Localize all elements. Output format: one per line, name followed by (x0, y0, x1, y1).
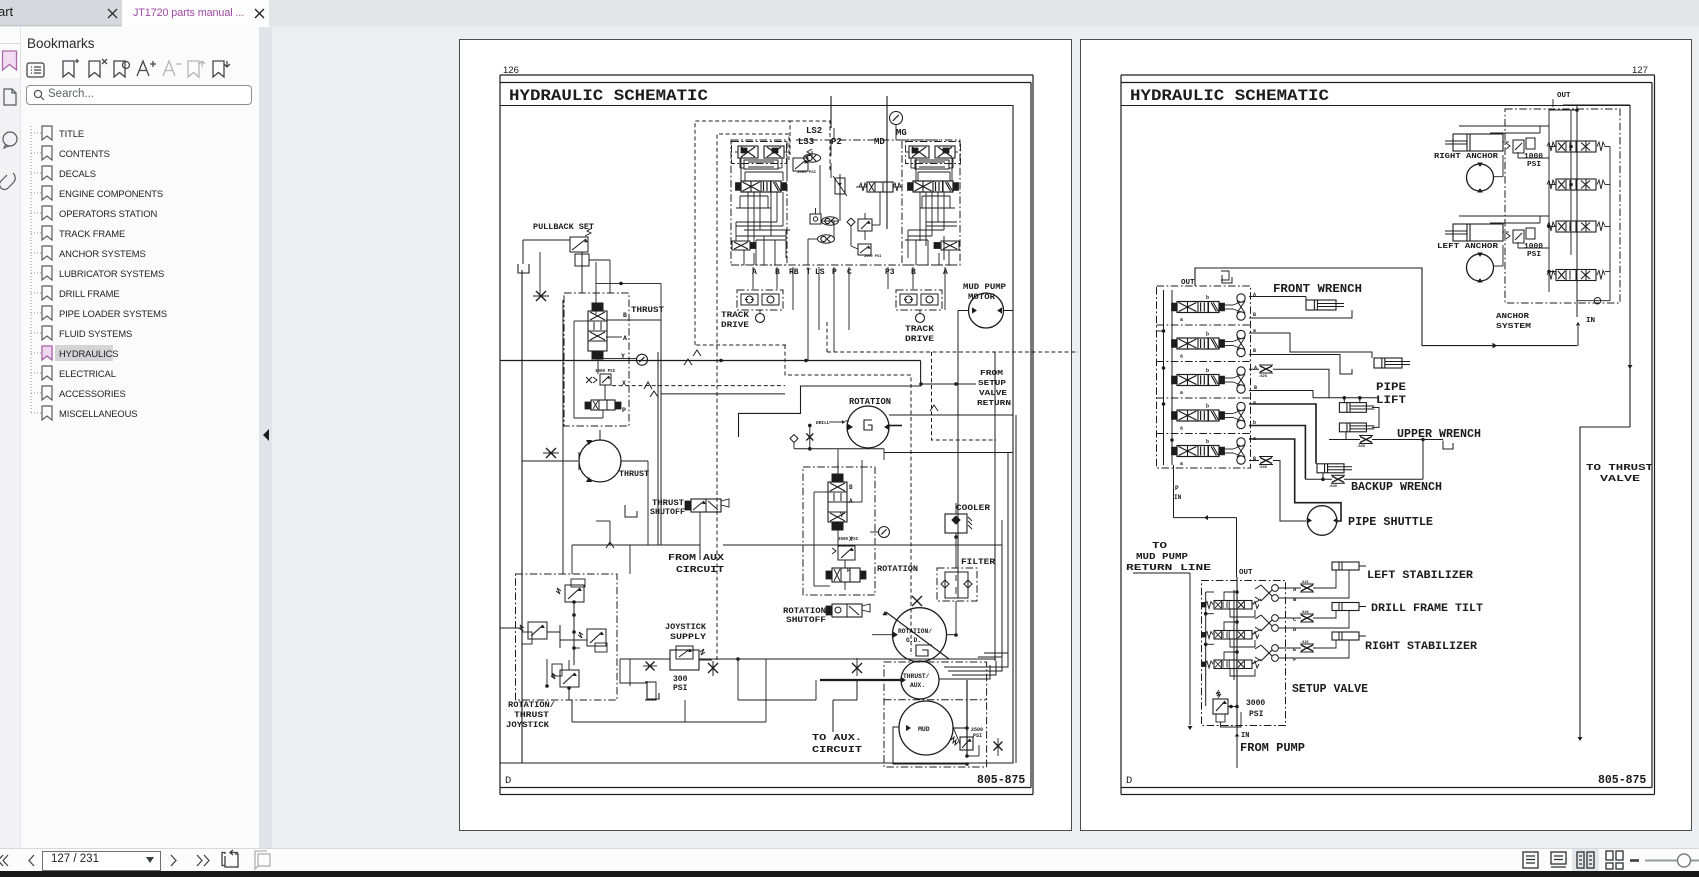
section4 heavy wire B (1249, 426, 1305, 480)
svg-text:SHUTOFF: SHUTOFF (786, 616, 826, 625)
pullback tank bracket (518, 264, 529, 273)
section3 wires (1249, 369, 1329, 398)
joystick supply X left (643, 662, 657, 671)
svg-text:TRACK: TRACK (721, 311, 749, 320)
rotation motor circle (847, 406, 890, 448)
svg-text:ANCHOR: ANCHOR (1496, 313, 1530, 321)
label 3000 PSI setup (1246, 699, 1265, 719)
anchor internal wires (1459, 110, 1610, 301)
label THRUST (631, 305, 664, 315)
joystick external wires (572, 521, 648, 574)
pilot line LS3-P2-MD dash-dot (796, 139, 940, 141)
svg-text:FROM PUMP: FROM PUMP (1240, 742, 1305, 755)
svg-text:CIRCUIT: CIRCUIT (676, 564, 724, 575)
svg-text:b: b (1206, 404, 1209, 410)
svg-text:300: 300 (673, 675, 688, 684)
svg-text:CIRCUIT: CIRCUIT (812, 744, 862, 755)
port labels row (752, 268, 948, 277)
label LEFT ANCHOR (1437, 243, 1499, 251)
page 1 title underline / drawing frame (500, 106, 1013, 764)
svg-text:MUD PUMP: MUD PUMP (1136, 551, 1188, 562)
setup orifice C (1300, 611, 1314, 622)
flow control mid (833, 174, 847, 198)
diamond check node (790, 424, 813, 451)
page 2 sheet letter D (1126, 775, 1132, 787)
joystick valve top (556, 579, 585, 602)
upper wrench feed line (1313, 396, 1379, 403)
anchor out-in vertical (1575, 106, 1579, 318)
upper wrench step connector (1372, 408, 1379, 428)
svg-text:805-875: 805-875 (977, 774, 1025, 787)
label LS2 (806, 126, 822, 136)
svg-text:DRIVE: DRIVE (905, 335, 934, 344)
svg-text:VALVE: VALVE (979, 390, 1008, 398)
svg-text:B: B (1253, 312, 1256, 318)
mid right valve (859, 182, 901, 192)
upper wrench cylinder 2 (1339, 423, 1374, 432)
svg-text:126: 126 (503, 65, 519, 76)
svg-text:Y: Y (840, 512, 844, 519)
page 2 drawing number (1598, 774, 1646, 787)
right anchor cylinder (1445, 134, 1503, 151)
backup wrench cylinder (1317, 464, 1352, 473)
thrust control box (564, 293, 629, 426)
right stab wires (1279, 640, 1350, 658)
from setup valve return label (977, 370, 1011, 408)
joystick supply wires (545, 657, 996, 688)
main pressure rail horizontal (500, 359, 921, 363)
svg-text:B: B (1253, 456, 1256, 462)
svg-text:T: T (806, 268, 811, 277)
anchor valve 2 (1547, 179, 1605, 190)
svg-text:3000: 3000 (1246, 699, 1265, 708)
label TRACK DRIVE left (721, 311, 749, 330)
pipe lift cylinder (1374, 358, 1410, 368)
setup port labels (1293, 586, 1297, 663)
joystick supply tank (645, 681, 659, 700)
svg-text:LEFT ANCHOR: LEFT ANCHOR (1437, 243, 1499, 251)
svg-text:THRUST/: THRUST/ (903, 673, 930, 680)
svg-text:THRUST: THRUST (652, 499, 684, 508)
svg-text:AUX.: AUX. (910, 682, 925, 689)
svg-text:.040: .040 (1300, 611, 1309, 615)
svg-text:VALVE: VALVE (1600, 474, 1641, 484)
svg-text:D: D (505, 775, 511, 787)
svg-text:B: B (1253, 348, 1256, 354)
svg-text:D: D (1126, 775, 1132, 787)
joystick supply label (665, 622, 707, 642)
label IN setup (1241, 732, 1249, 740)
to thrust valve line (1578, 365, 1633, 741)
right bundle horizontal (889, 405, 1013, 415)
track drive right assembly (896, 290, 942, 310)
svg-text:b: b (1206, 295, 1209, 301)
label TO MUD PUMP RETURN LINE (1126, 540, 1211, 573)
wires bank internals right (905, 158, 957, 265)
label ROTATION right (877, 564, 918, 574)
setup valve spool 2 (1202, 631, 1259, 640)
thrust shutoff tank (625, 505, 637, 517)
svg-text:SYSTEM: SYSTEM (1496, 323, 1532, 331)
anchor bottom check (1577, 298, 1610, 304)
left bank pilot valves (735, 146, 787, 169)
label 1000 psi 2 (1524, 243, 1544, 259)
joystick supply X right (708, 661, 718, 676)
svg-text:OUT: OUT (1557, 92, 1571, 100)
tank top stub (1221, 271, 1232, 283)
joystick label (506, 701, 555, 730)
svg-text:.046: .046 (1258, 466, 1268, 470)
mud pump motor wires (958, 311, 1013, 599)
check valve LS (804, 154, 821, 162)
mud pump return wire (1133, 573, 1192, 730)
section5 wire B (1249, 461, 1306, 522)
svg-text:A: A (849, 498, 853, 505)
arrow to bank (1174, 515, 1237, 577)
svg-text:1000: 1000 (1524, 243, 1544, 251)
svg-text:A: A (943, 268, 948, 277)
setup in arrow (1235, 731, 1239, 768)
from pump main vertical (1234, 577, 1237, 731)
svg-text:COOLER: COOLER (956, 503, 991, 513)
mud pump motor circle (969, 293, 1004, 328)
section2 wires to pipe lift (1249, 333, 1372, 374)
wrench valve section 1 (1172, 294, 1246, 323)
svg-text:SETUP: SETUP (978, 380, 1007, 388)
rotation spool valve (828, 474, 847, 530)
setup ports EF (1255, 645, 1278, 662)
wrench bank box (1157, 286, 1251, 468)
dashed return path upper (827, 322, 1078, 352)
upper wrench orifice (1356, 436, 1373, 450)
relief valve 3000psi pilot (793, 149, 817, 175)
svg-text:LS: LS (815, 268, 825, 277)
long vertical P2 line (831, 96, 834, 140)
svg-text:ROTATION/: ROTATION/ (508, 701, 555, 710)
rotation gd pump circle (882, 608, 949, 662)
page 2 title underline (1121, 106, 1630, 372)
pullback wires (523, 240, 610, 295)
svg-text:PSI: PSI (1527, 161, 1541, 169)
svg-text:IN: IN (1586, 317, 1595, 325)
pipe shuttle motor (1307, 506, 1337, 536)
anchor valve 1 (1547, 141, 1605, 152)
svg-text:JOYSTICK: JOYSTICK (665, 622, 707, 632)
check valve mid 1 (822, 217, 839, 225)
svg-text:RIGHT STABILIZER: RIGHT STABILIZER (1365, 641, 1477, 653)
left bank main spool valve (736, 181, 787, 192)
svg-text:B: B (775, 268, 780, 277)
long rail second vertical (562, 300, 564, 574)
svg-text:PSI: PSI (973, 733, 982, 739)
rotation shutoff valve (826, 604, 870, 617)
thrust shutoff label (650, 499, 685, 517)
wrench valve section 4 (1172, 402, 1246, 431)
long rail left vertical (521, 270, 523, 763)
svg-text:MG: MG (896, 128, 907, 138)
wrench valve section 5 (1172, 438, 1246, 467)
svg-text:THRUST: THRUST (619, 469, 649, 479)
closed port X thrust (543, 448, 559, 458)
mud pump motor label (963, 282, 1006, 302)
svg-text:DRILL: DRILL (816, 420, 830, 426)
from setup valve return wire (919, 382, 976, 386)
anchor out wire (1553, 99, 1630, 107)
anchor valve 3 (1547, 221, 1605, 232)
anchor system box (1505, 109, 1620, 303)
mud X port (994, 738, 1003, 756)
track-drive valve bank right box (902, 140, 960, 265)
mud pump circle (899, 701, 953, 755)
left stabilizer cylinder (1332, 562, 1366, 570)
filter box (937, 568, 977, 601)
rotation gauge (870, 527, 890, 538)
svg-text:PIPE: PIPE (1376, 382, 1406, 394)
svg-text:.025: .025 (1258, 375, 1268, 379)
dashed return path lower (785, 345, 996, 655)
thrust gauge (637, 354, 648, 365)
wrench valve section 2 (1172, 330, 1246, 359)
svg-text:.025: .025 (1300, 641, 1309, 645)
pullback relief valve (570, 228, 592, 266)
svg-text:RB: RB (789, 268, 799, 277)
thrust spool valve (588, 303, 607, 359)
page 1 sheet (460, 40, 1072, 831)
pressure reducing valve mid (858, 213, 872, 231)
dashed enclosure outer left (695, 121, 790, 345)
label SETUP VALVE (1292, 683, 1368, 696)
label THRUST under motor (619, 469, 649, 479)
to aux wire (820, 658, 901, 732)
dashed enclosure inner (717, 134, 789, 660)
rotation wires (814, 460, 862, 590)
wires center cluster (808, 140, 902, 265)
setup spool wires (1224, 590, 1261, 676)
wrench bank rails (1157, 290, 1174, 465)
svg-text:A: A (1254, 365, 1257, 371)
label OUT top (1557, 92, 1571, 100)
setup valve spool 3 (1202, 660, 1259, 669)
label TO THRUST VALVE (1586, 463, 1654, 484)
right anchor motor (1467, 163, 1494, 193)
closed port X left (533, 291, 549, 301)
upper wrench line (1329, 432, 1453, 449)
svg-text:OUT: OUT (1239, 569, 1253, 577)
bank P rail down (1173, 465, 1175, 518)
right stabilizer cylinder (1332, 632, 1366, 640)
svg-text:a: a (1180, 426, 1183, 432)
relief 2500psi (858, 244, 881, 259)
svg-text:FILTER: FILTER (961, 557, 996, 567)
label 1000 psi 1 (1524, 153, 1544, 169)
page 2 sheet (1081, 40, 1692, 831)
svg-text:B: B (911, 268, 916, 277)
svg-text:TO AUX.: TO AUX. (812, 732, 862, 743)
svg-text:PSI: PSI (1527, 251, 1541, 259)
wire bank out top (1195, 268, 1252, 286)
setup valve box (1202, 581, 1286, 726)
supply staircase to joystick (739, 361, 921, 438)
svg-text:.025: .025 (1300, 581, 1309, 585)
mud pump dashdot box (884, 662, 987, 767)
track drive left assembly (737, 290, 783, 310)
label MD (874, 137, 885, 147)
port labels A B bank (1253, 292, 1257, 462)
rotation control box (803, 467, 875, 595)
joystick cross wires (500, 600, 587, 700)
svg-text:TRACK: TRACK (905, 325, 934, 334)
svg-text:DRILL FRAME TILT: DRILL FRAME TILT (1371, 603, 1483, 615)
page 1 title HYDRAULIC SCHEMATIC (509, 87, 708, 105)
label ROTATION above motor (849, 397, 891, 407)
svg-text:A: A (1253, 292, 1256, 298)
front wrench wires (1249, 297, 1352, 319)
track-drive valve bank left box (731, 140, 787, 265)
left stab wires (1279, 570, 1350, 598)
page 2 title (1130, 87, 1329, 105)
svg-text:P2: P2 (831, 137, 842, 147)
label P IN (1174, 485, 1182, 501)
page 1 drawing number 805-875 (977, 774, 1025, 787)
svg-text:b: b (1206, 439, 1209, 445)
wire jump marks (684, 350, 701, 365)
thrust lower valve (585, 400, 621, 410)
joystick supply 300 psi (673, 675, 688, 693)
rotation lower valve (826, 568, 866, 582)
section5 heavy wire A (1249, 439, 1341, 521)
cooler box (945, 514, 972, 533)
thrust reducing valve (586, 374, 611, 385)
label FRONT WRENCH (1273, 283, 1362, 296)
svg-text:b: b (1206, 332, 1209, 338)
thrust motor wires (522, 430, 648, 545)
svg-text:HYDRAULIC SCHEMATIC: HYDRAULIC SCHEMATIC (509, 87, 708, 105)
page 1 sheet letter D (505, 775, 511, 787)
label RIGHT ANCHOR (1434, 153, 1499, 161)
svg-text:LIFT: LIFT (1376, 395, 1406, 407)
mud wires (893, 680, 979, 766)
from aux wires right (648, 520, 1002, 560)
wrench section divider lines (1157, 325, 1251, 434)
thrust X dashed return (612, 382, 785, 397)
rotation 3000 psi text (838, 538, 859, 542)
svg-text:RIGHT ANCHOR: RIGHT ANCHOR (1434, 153, 1499, 161)
drill frame tilt cylinder (1332, 603, 1366, 611)
svg-text:BACKUP WRENCH: BACKUP WRENCH (1351, 481, 1442, 494)
left bank pilot box (732, 142, 787, 164)
left anchor cylinder (1445, 224, 1503, 241)
right anchor relief (1506, 138, 1535, 153)
left bank hi-lo valve (732, 241, 756, 250)
check valve mid 2 (818, 235, 835, 243)
svg-text:JOYSTICK: JOYSTICK (506, 721, 549, 730)
svg-text:LS3: LS3 (798, 137, 814, 147)
svg-text:3000 PSI: 3000 PSI (797, 171, 817, 175)
left anchor motor (1467, 253, 1494, 283)
bank bottom dash-dot rail (731, 264, 960, 266)
svg-text:HYDRAULIC SCHEMATIC: HYDRAULIC SCHEMATIC (1130, 87, 1329, 105)
section5 orifice B (1258, 457, 1273, 471)
thrust aux pump circle (901, 661, 939, 699)
label P2 (831, 137, 842, 147)
svg-text:G.D.: G.D. (906, 637, 921, 644)
backup wrench orifice (1328, 475, 1345, 489)
svg-text:ROTATION: ROTATION (783, 607, 826, 616)
right bank hi-lo valve (934, 241, 959, 250)
label ANCHOR SYSTEM (1496, 313, 1532, 331)
rotation gd wires (872, 634, 956, 636)
svg-text:a: a (1253, 400, 1256, 406)
svg-text:MUD: MUD (918, 726, 930, 733)
svg-text:1000: 1000 (1524, 153, 1544, 161)
label PIPE SHUTTLE (1348, 516, 1433, 529)
mud 2500 psi (971, 727, 983, 739)
svg-text:805-875: 805-875 (1598, 774, 1646, 787)
label LS3 (798, 137, 814, 147)
setup relief 3000 (1213, 690, 1241, 727)
svg-text:a: a (1180, 317, 1183, 323)
svg-text:MUD PUMP: MUD PUMP (963, 282, 1006, 292)
svg-text:FRONT WRENCH: FRONT WRENCH (1273, 283, 1362, 296)
anchor in arrow (1576, 322, 1580, 346)
label PIPE LIFT (1376, 382, 1406, 407)
svg-text:a: a (1180, 390, 1183, 396)
svg-text:C: C (847, 268, 852, 277)
label BACKUP WRENCH (1351, 481, 1442, 494)
right bank pilot box (906, 142, 961, 164)
svg-text:RETURN LINE: RETURN LINE (1126, 562, 1211, 573)
svg-text:OUT: OUT (1181, 279, 1195, 287)
pullback set label (533, 222, 594, 232)
wrench valve section 3 (1172, 367, 1246, 396)
svg-text:PSI: PSI (673, 684, 688, 693)
label TRACK DRIVE right (905, 325, 934, 344)
joystick valve left (519, 622, 547, 644)
joystick supply valve (670, 646, 712, 670)
joystick valve right (578, 629, 607, 652)
label UPPER WRENCH (1397, 428, 1481, 441)
track drive right brake circle (916, 310, 925, 323)
joystick box (516, 574, 618, 700)
mud relief valve (951, 727, 973, 750)
svg-text:SETUP VALVE: SETUP VALVE (1292, 683, 1368, 696)
thrust 3000 psi text (595, 370, 616, 374)
anchor valve 4 (1547, 270, 1605, 281)
svg-text:127: 127 (1632, 65, 1648, 76)
page 1 number 126 (503, 65, 519, 76)
setup valve spool 1 (1202, 601, 1259, 610)
svg-text:P: P (1175, 485, 1179, 492)
svg-text:2500 PSI: 2500 PSI (864, 255, 881, 259)
svg-text:B: B (849, 484, 853, 491)
svg-text:SHUTOFF: SHUTOFF (650, 508, 685, 517)
svg-text:P: P (622, 407, 626, 414)
rotation shutoff label (783, 607, 826, 625)
label DRILL FRAME TILT (1371, 603, 1483, 615)
svg-text:PULLBACK SET: PULLBACK SET (533, 222, 594, 232)
thrust shutoff valve (685, 499, 729, 560)
label LEFT STABILIZER (1367, 570, 1473, 582)
svg-text:PIPE SHUTTLE: PIPE SHUTTLE (1348, 516, 1433, 529)
wire to anchor system (1252, 268, 1577, 348)
rotation motor wires (845, 421, 1013, 453)
setup left rail (1202, 592, 1214, 706)
svg-text:.046: .046 (1328, 485, 1338, 489)
setup orifice E (1300, 641, 1314, 652)
setup ports AB (1255, 585, 1278, 602)
svg-text:P3: P3 (885, 268, 895, 277)
label IN 2 (1586, 317, 1595, 325)
